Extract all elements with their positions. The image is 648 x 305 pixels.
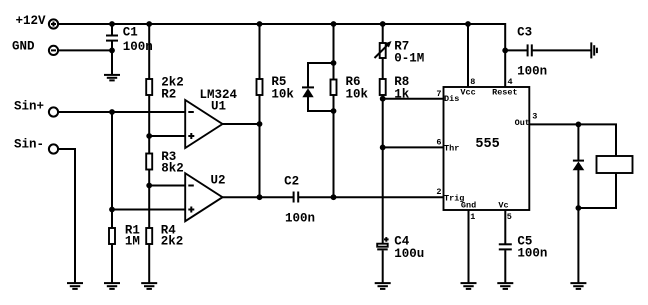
wire R5 bottom	[259, 95, 261, 197]
resistor R2	[146, 76, 184, 102]
svg-text:2: 2	[436, 187, 441, 197]
wire U2 plus input	[112, 209, 185, 211]
capacitor C1	[106, 24, 153, 54]
junction diode top	[331, 60, 337, 66]
svg-text:Dis: Dis	[444, 94, 459, 104]
ground under C1	[104, 75, 120, 81]
wire GND rail	[58, 49, 112, 51]
IC U3 555	[444, 87, 530, 211]
ground under C5	[497, 283, 513, 289]
diode D2	[573, 124, 585, 208]
ground under pin 1	[461, 283, 477, 289]
capacitor C2	[284, 175, 315, 226]
wire R7 to R8	[382, 58, 384, 79]
terminal GND	[12, 39, 58, 55]
ground under Sin-	[67, 283, 83, 289]
resistor R4	[146, 224, 183, 249]
junction Dis	[380, 96, 386, 102]
wire +12V rail	[58, 24, 505, 87]
potentiometer R7	[375, 40, 425, 66]
junction U2 minus	[146, 183, 152, 189]
junction Trig C2	[331, 194, 337, 200]
svg-text:8: 8	[470, 77, 475, 87]
resistor R1	[109, 210, 140, 249]
junction U1 out	[257, 121, 263, 127]
wire U1 plus input	[149, 135, 185, 137]
junction +12V R2	[146, 21, 152, 27]
svg-text:5: 5	[507, 212, 512, 222]
svg-text:Sin-: Sin-	[14, 137, 44, 151]
junction diode bottom	[331, 108, 337, 114]
resistor R6	[331, 75, 369, 102]
wire diode node to ground	[577, 208, 579, 283]
junction diode relay bottom	[576, 205, 582, 211]
wire Dis pin	[383, 98, 444, 100]
svg-text:4: 4	[508, 77, 513, 87]
svg-text:100u: 100u	[394, 247, 424, 261]
junction U1 plus	[146, 133, 152, 139]
svg-text:Vcc: Vcc	[460, 87, 475, 97]
wire R3 to R4	[148, 170, 150, 229]
svg-text:3: 3	[532, 112, 537, 122]
terminal Sin+	[14, 99, 58, 116]
svg-text:GND: GND	[12, 39, 35, 53]
svg-text:Sin+: Sin+	[14, 99, 44, 113]
resistor R8	[380, 75, 410, 102]
svg-text:Reset: Reset	[492, 87, 518, 97]
junction Reset C3	[502, 48, 508, 54]
earth ground right of C3	[591, 42, 597, 58]
op-amp U1	[185, 88, 237, 148]
svg-text:100n: 100n	[517, 65, 547, 79]
junction GND C1	[109, 48, 115, 54]
wire R5 top	[259, 24, 261, 79]
capacitor C5	[499, 210, 548, 283]
wire U2 output	[223, 196, 294, 198]
svg-text:C1: C1	[123, 25, 138, 39]
svg-text:10k: 10k	[346, 88, 369, 102]
svg-text:1M: 1M	[125, 235, 140, 249]
terminal Sin-	[14, 137, 58, 153]
junction +12V R5	[257, 21, 263, 27]
wire C1 to ground	[111, 50, 113, 75]
svg-text:8k2: 8k2	[161, 162, 184, 176]
wire Vcc drop	[467, 24, 469, 87]
wire Sin- lead	[58, 149, 75, 283]
ground under relay	[570, 283, 586, 289]
wire Thr node to C4	[382, 147, 384, 243]
svg-text:U1: U1	[211, 100, 226, 114]
wire R4 to ground	[148, 244, 150, 283]
resistor R3	[146, 150, 184, 176]
svg-text:+12V: +12V	[16, 14, 47, 28]
junction Out diode	[576, 122, 582, 128]
op-amp U2	[185, 173, 225, 221]
junction +12V R6	[331, 21, 337, 27]
wire Out pin	[529, 124, 616, 156]
wire relay bottom	[578, 173, 616, 208]
svg-text:2k2: 2k2	[161, 235, 184, 249]
svg-text:Gnd: Gnd	[461, 201, 476, 211]
wire C2 to Trig	[298, 196, 443, 198]
svg-text:Vc: Vc	[498, 201, 508, 211]
svg-text:1: 1	[470, 212, 475, 222]
svg-text:Thr: Thr	[444, 143, 459, 153]
svg-text:Out: Out	[515, 118, 530, 128]
svg-text:7: 7	[436, 89, 441, 99]
junction +12V Vcc	[465, 21, 471, 27]
wire R8 to Dis	[382, 95, 384, 99]
terminal +12V	[16, 14, 59, 29]
ground under C4	[375, 283, 391, 289]
junction +12V C1	[109, 21, 115, 27]
junction U2 out	[257, 194, 263, 200]
wire R1 to ground	[111, 244, 113, 283]
svg-text:100n: 100n	[285, 212, 315, 226]
junction Sin+	[109, 109, 115, 115]
wire R2 top	[148, 24, 150, 79]
capacitor C4	[377, 235, 424, 262]
relay K1	[597, 156, 633, 173]
svg-text:R2: R2	[161, 88, 176, 102]
svg-text:10k: 10k	[271, 88, 294, 102]
svg-text:U2: U2	[211, 173, 226, 187]
junction Thr	[380, 145, 386, 151]
wire R7 top	[382, 24, 384, 43]
wire U2 minus input	[149, 185, 185, 187]
svg-text:100n: 100n	[517, 247, 547, 261]
svg-text:C3: C3	[517, 26, 532, 40]
wire R2 to R3	[148, 95, 150, 154]
ground under R4	[141, 283, 157, 289]
svg-text:0-1M: 0-1M	[394, 52, 424, 66]
wire Sin+ node down	[111, 112, 113, 210]
junction U2 plus	[109, 207, 115, 213]
wire C4 to ground	[382, 250, 384, 283]
wire R6 top	[333, 24, 335, 80]
svg-text:C2: C2	[284, 175, 299, 189]
svg-text:6: 6	[436, 138, 441, 148]
junction +12V R7	[380, 21, 386, 27]
wire Thr pin	[383, 146, 444, 148]
svg-text:555: 555	[475, 137, 499, 152]
wire R6 bottom	[333, 95, 335, 197]
wire U1 output	[223, 123, 260, 125]
diode D1	[302, 63, 334, 111]
wire Dis node to Thr node	[382, 99, 384, 148]
ground under R1	[104, 283, 120, 289]
wire Gnd pin to ground	[468, 210, 470, 283]
wire Sin+ to U1 minus input	[58, 111, 185, 113]
resistor R5	[257, 75, 295, 102]
capacitor C3	[505, 26, 591, 79]
